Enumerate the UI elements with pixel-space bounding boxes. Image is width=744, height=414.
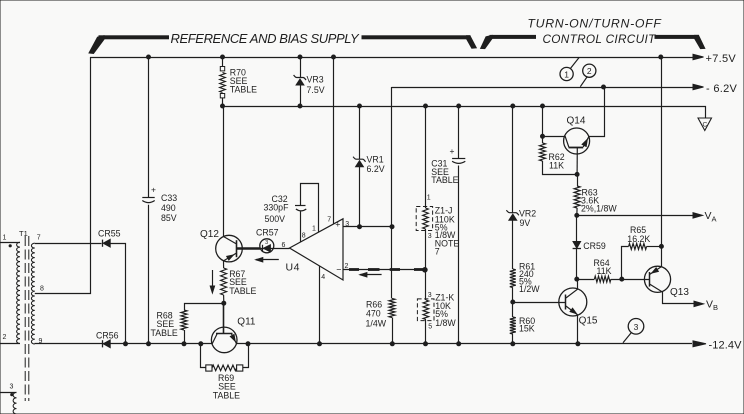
svg-text:7.5V: 7.5V bbox=[307, 85, 325, 95]
svg-text:3: 3 bbox=[634, 322, 639, 332]
svg-text:- 6.2V: - 6.2V bbox=[706, 83, 738, 95]
svg-text:8: 8 bbox=[40, 286, 44, 293]
svg-text:V: V bbox=[706, 299, 713, 311]
svg-text:85V: 85V bbox=[161, 213, 177, 223]
svg-text:Q13: Q13 bbox=[670, 287, 689, 298]
svg-text:Q12: Q12 bbox=[200, 229, 219, 240]
svg-text:CR59: CR59 bbox=[583, 241, 606, 251]
svg-text:9V: 9V bbox=[520, 218, 531, 228]
svg-text:8: 8 bbox=[302, 232, 306, 239]
svg-text:500V: 500V bbox=[265, 214, 286, 224]
svg-text:VR2: VR2 bbox=[519, 209, 536, 219]
svg-text:2: 2 bbox=[345, 263, 349, 270]
svg-text:1: 1 bbox=[427, 195, 431, 202]
svg-text:V: V bbox=[705, 210, 712, 222]
svg-text:330pF: 330pF bbox=[264, 202, 290, 212]
svg-text:-12.4V: -12.4V bbox=[709, 340, 743, 352]
svg-text:CONTROL CIRCUIT: CONTROL CIRCUIT bbox=[542, 32, 656, 46]
svg-text:3: 3 bbox=[428, 292, 432, 299]
svg-text:1/4W: 1/4W bbox=[366, 319, 387, 329]
svg-text:3: 3 bbox=[345, 221, 349, 228]
svg-text:7: 7 bbox=[37, 235, 41, 242]
svg-text:CR57: CR57 bbox=[256, 227, 279, 237]
svg-text:490: 490 bbox=[161, 203, 176, 213]
svg-text:3: 3 bbox=[428, 233, 432, 240]
svg-text:A: A bbox=[712, 215, 717, 224]
svg-text:TABLE: TABLE bbox=[229, 286, 256, 296]
svg-text:9: 9 bbox=[39, 338, 43, 345]
svg-text:U4: U4 bbox=[286, 262, 300, 274]
svg-text:Q14: Q14 bbox=[567, 116, 586, 127]
svg-text:7: 7 bbox=[435, 247, 440, 257]
svg-text:CR56: CR56 bbox=[96, 331, 119, 341]
svg-text:TABLE: TABLE bbox=[230, 85, 257, 95]
svg-text:Q11: Q11 bbox=[237, 317, 256, 328]
svg-text:T1: T1 bbox=[19, 229, 28, 238]
svg-text:3: 3 bbox=[10, 384, 14, 391]
svg-text:2: 2 bbox=[3, 334, 7, 341]
svg-text:1: 1 bbox=[312, 226, 316, 233]
svg-text:+: + bbox=[151, 185, 156, 195]
svg-text:4: 4 bbox=[321, 274, 325, 281]
svg-text:C: C bbox=[702, 122, 707, 129]
svg-text:470: 470 bbox=[366, 309, 381, 319]
svg-text:2: 2 bbox=[587, 66, 592, 76]
svg-text:VR1: VR1 bbox=[367, 155, 384, 165]
svg-text:−: − bbox=[336, 264, 341, 274]
svg-text:11K: 11K bbox=[597, 266, 612, 276]
svg-text:1: 1 bbox=[3, 235, 7, 242]
svg-text:B: B bbox=[713, 303, 718, 312]
svg-text:REFERENCE AND BIAS SUPPLY: REFERENCE AND BIAS SUPPLY bbox=[171, 31, 360, 46]
svg-text:6.2V: 6.2V bbox=[367, 164, 385, 174]
svg-text:+: + bbox=[335, 220, 340, 230]
svg-text:TURN-ON/TURN-OFF: TURN-ON/TURN-OFF bbox=[527, 17, 662, 31]
svg-text:+: + bbox=[450, 146, 455, 156]
svg-text:C33: C33 bbox=[161, 193, 177, 203]
svg-text:TABLE: TABLE bbox=[213, 391, 240, 401]
svg-text:3: 3 bbox=[265, 240, 268, 246]
svg-text:1: 1 bbox=[564, 69, 569, 79]
svg-text:CR55: CR55 bbox=[98, 228, 121, 238]
svg-text:1/2W: 1/2W bbox=[519, 284, 540, 294]
svg-text:TABLE: TABLE bbox=[151, 328, 178, 338]
svg-text:5: 5 bbox=[428, 324, 432, 331]
svg-text:Q15: Q15 bbox=[579, 316, 598, 327]
svg-text:11K: 11K bbox=[549, 160, 564, 170]
svg-text:1/8W: 1/8W bbox=[435, 318, 456, 328]
svg-text:16.2K: 16.2K bbox=[627, 234, 650, 244]
svg-text:6: 6 bbox=[282, 242, 286, 249]
svg-text:2%,1/8W: 2%,1/8W bbox=[581, 204, 617, 214]
svg-text:7: 7 bbox=[327, 217, 331, 224]
svg-text:15K: 15K bbox=[519, 324, 535, 334]
svg-text:VR3: VR3 bbox=[307, 75, 324, 85]
svg-text:+7.5V: +7.5V bbox=[706, 53, 737, 65]
svg-text:TABLE: TABLE bbox=[431, 175, 458, 185]
